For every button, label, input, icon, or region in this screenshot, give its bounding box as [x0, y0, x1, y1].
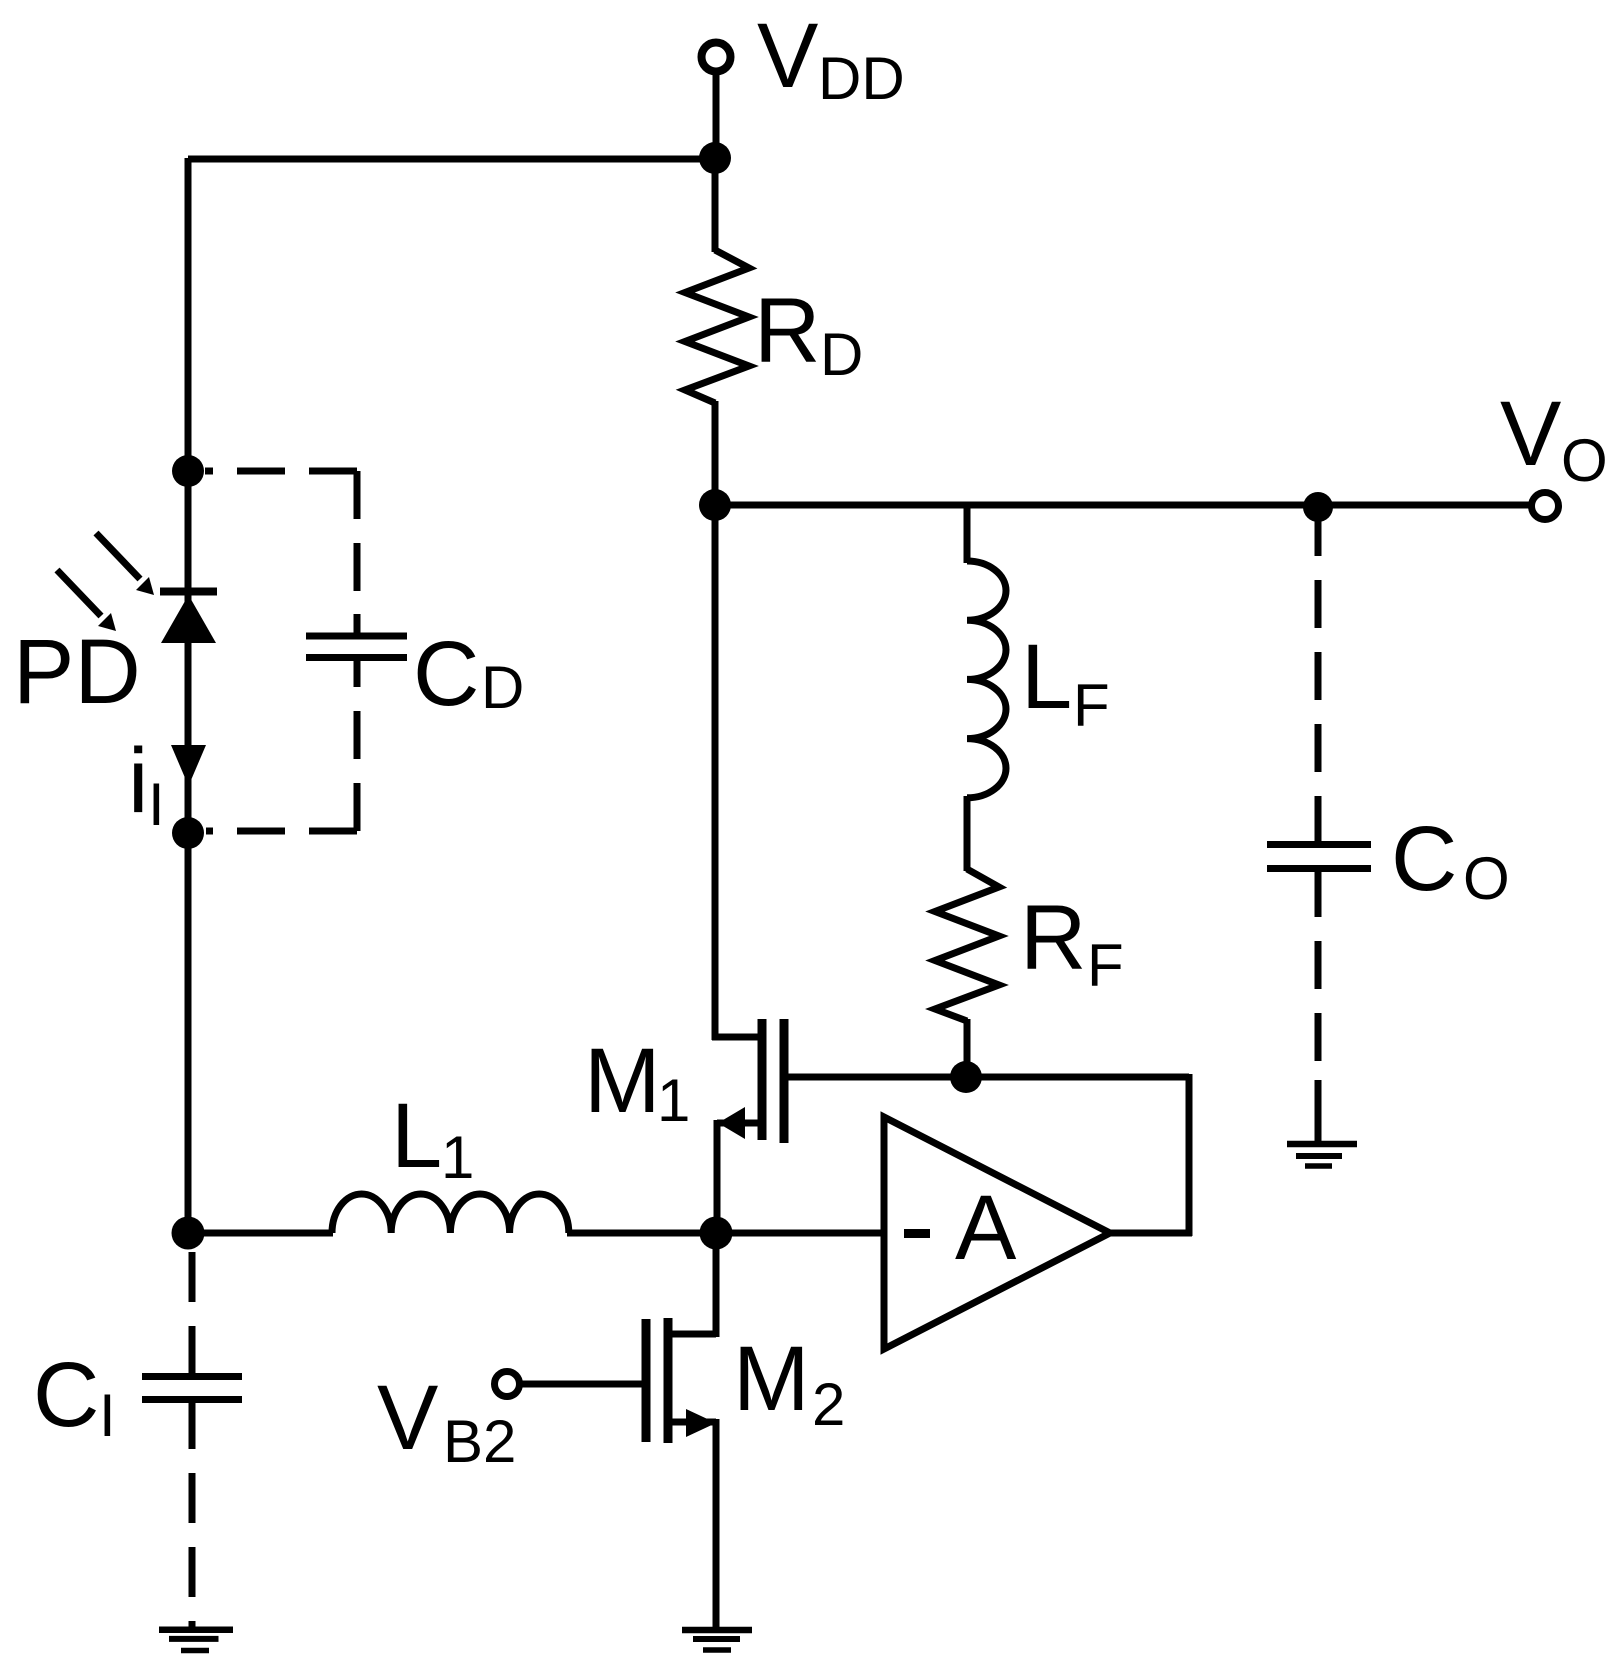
svg-text:1: 1 [657, 1067, 690, 1134]
svg-text:V: V [377, 1367, 438, 1469]
svg-text:F: F [1087, 932, 1124, 999]
svg-text:DD: DD [818, 45, 905, 112]
svg-text:L: L [391, 1085, 442, 1187]
svg-text:R: R [1020, 887, 1086, 989]
svg-text:L: L [1021, 626, 1072, 728]
svg-text:I: I [148, 771, 165, 838]
svg-text:1: 1 [441, 1124, 474, 1191]
svg-text:B2: B2 [443, 1408, 516, 1475]
svg-text:V: V [757, 5, 818, 107]
svg-text:V: V [1500, 383, 1561, 485]
svg-text:M: M [733, 1328, 810, 1430]
svg-text:I: I [99, 1382, 116, 1449]
svg-text:C: C [33, 1344, 99, 1446]
svg-text:C: C [1391, 808, 1457, 910]
svg-text:C: C [413, 623, 479, 725]
svg-text:A: A [955, 1177, 1017, 1279]
svg-text:D: D [820, 321, 863, 388]
svg-text:O: O [1463, 845, 1510, 912]
svg-text:M: M [584, 1030, 661, 1132]
svg-text:PD: PD [13, 621, 141, 723]
svg-text:F: F [1073, 672, 1110, 739]
svg-text:2: 2 [812, 1371, 845, 1438]
svg-text:O: O [1561, 427, 1608, 494]
svg-text:D: D [481, 654, 524, 721]
svg-text:i: i [128, 730, 148, 832]
svg-text:R: R [754, 280, 820, 382]
